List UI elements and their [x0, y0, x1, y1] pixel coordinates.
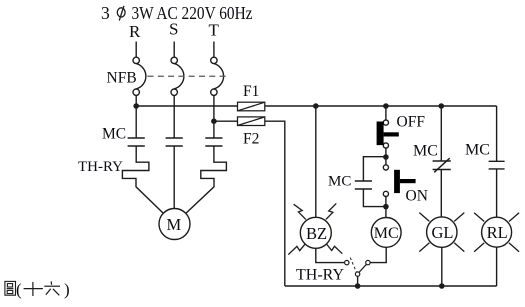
- svg-text:): ): [64, 280, 70, 299]
- wire top bus left (R to F1): [136, 105, 237, 107]
- pilot lamp GL: [419, 213, 464, 252]
- NO contact MC-a for RL: [489, 161, 505, 169]
- svg-text:MC: MC: [328, 174, 351, 190]
- svg-text:F1: F1: [243, 83, 259, 100]
- wire T lead-in: [213, 42, 215, 58]
- wire BZ to TH-RY NC contact: [316, 248, 345, 262]
- wire top bus right (F1 to RL branch): [265, 105, 497, 107]
- fuse F1: [238, 102, 265, 111]
- svg-text:MC: MC: [102, 126, 126, 143]
- motor M: [159, 209, 190, 240]
- svg-text:3W AC 220V 60Hz: 3W AC 220V 60Hz: [132, 3, 253, 23]
- wire F2 to control common (right then down): [265, 121, 285, 286]
- svg-text:GL: GL: [432, 223, 454, 242]
- junction OFF/ON-MC aux top: [383, 154, 389, 160]
- svg-text:M: M: [167, 215, 182, 234]
- svg-text:NFB: NFB: [107, 70, 137, 87]
- wire S lead-in: [173, 42, 175, 58]
- wire ON to coil: [385, 197, 387, 219]
- junction GL-bottom bus: [439, 283, 445, 289]
- breaker NFB pole S: [171, 57, 184, 95]
- pushbutton OFF (NC): [377, 120, 399, 148]
- svg-text:R: R: [129, 22, 141, 41]
- caption glyph 圖: [5, 281, 16, 295]
- pilot lamp RL: [474, 213, 519, 252]
- svg-text:TH-RY: TH-RY: [78, 159, 123, 175]
- svg-text:MC: MC: [465, 142, 490, 159]
- wire GL branch upper: [440, 106, 442, 161]
- wire RL branch lower: [496, 247, 498, 286]
- thermal overload heater TH-RY pole R: [122, 146, 163, 213]
- auxiliary contact MC (self-holding): [355, 157, 386, 207]
- wire S breaker down to contactor: [173, 95, 175, 138]
- svg-text:ON: ON: [406, 188, 428, 205]
- wire GL branch middle: [440, 170, 442, 218]
- contactor main contact MC pole R: [128, 138, 145, 146]
- wire OFF to ON: [385, 148, 387, 165]
- svg-text:S: S: [169, 20, 178, 39]
- junction OFF branch-top bus: [383, 103, 389, 109]
- junction GL branch-top bus: [439, 103, 445, 109]
- wire RL branch middle: [496, 169, 498, 217]
- contactor main contact MC pole S: [166, 138, 183, 146]
- junction BZ branch-top bus: [313, 103, 319, 109]
- breaker NFB mechanical link (dashed): [148, 75, 228, 77]
- wire GL branch lower: [441, 247, 443, 286]
- buzzer BZ: [288, 203, 342, 254]
- wire R lead-in: [135, 42, 137, 58]
- breaker NFB pole T: [211, 57, 224, 95]
- wire RL branch upper: [496, 106, 498, 161]
- contactor coil MC: [371, 218, 401, 248]
- junction R-bus: [133, 103, 139, 109]
- svg-text:BZ: BZ: [306, 224, 327, 243]
- junction TH-RY-bottom bus: [355, 283, 361, 289]
- NC contact MC-b for GL: [433, 158, 451, 172]
- svg-text:MC: MC: [374, 225, 399, 242]
- wire T to F2: [214, 120, 238, 122]
- contactor main contact MC pole T: [205, 138, 222, 146]
- svg-text:3: 3: [101, 3, 110, 23]
- value label phi symbol: [117, 6, 125, 21]
- svg-text:(: (: [16, 280, 22, 299]
- wire R breaker to bus and down to contactor: [135, 95, 137, 138]
- wire BZ branch from top bus: [315, 106, 317, 217]
- caption text (十六): [16, 280, 70, 299]
- fuse F2: [238, 117, 265, 126]
- svg-text:T: T: [209, 21, 220, 40]
- junction T-F2 feed: [211, 118, 217, 124]
- wire S to motor: [173, 146, 175, 209]
- svg-text:MC: MC: [413, 143, 438, 160]
- junction ON/MC aux bottom: [383, 204, 389, 210]
- wire OFF branch from top bus: [385, 106, 387, 120]
- wire bottom bus: [285, 285, 497, 287]
- wire T breaker down to contactor: [213, 95, 215, 138]
- svg-text:TH-RY: TH-RY: [296, 267, 344, 284]
- pushbutton ON (NO): [383, 165, 415, 197]
- breaker NFB pole R: [133, 57, 146, 95]
- svg-text:OFF: OFF: [397, 114, 426, 131]
- thermal overload heater TH-RY pole T: [186, 146, 227, 213]
- svg-text:RL: RL: [487, 223, 508, 242]
- svg-text:F2: F2: [243, 131, 259, 148]
- wire coil to TH-RY NO contact: [370, 247, 386, 262]
- thermal overload trip contact TH-RY: [345, 258, 371, 286]
